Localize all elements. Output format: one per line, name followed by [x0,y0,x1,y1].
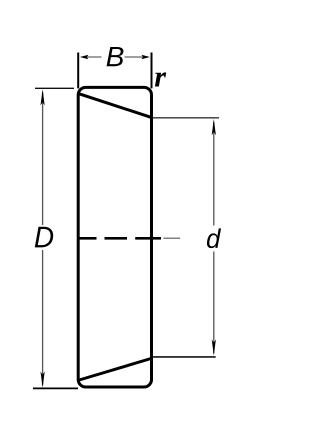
ring cross-section outline [78,87,151,387]
center line dash 1 [79,237,97,240]
B extension line left [77,53,79,89]
top taper diagonal [79,94,151,118]
D extension line top [35,87,74,89]
D arrow down [41,372,45,389]
bottom taper diagonal [79,359,151,381]
D dimension line upper [42,92,44,225]
D extension line bottom [33,387,78,389]
center line gray extension [164,237,181,239]
B extension line right [151,53,153,89]
B dimension line right segment [125,56,146,58]
d arrow up [212,119,216,136]
center line dash 2 [105,237,128,240]
d extension line bottom [153,356,216,358]
d extension line top [153,117,219,119]
D dimension line lower [42,250,44,385]
label d [207,228,221,248]
B arrow left [80,55,89,60]
B arrow right [141,55,150,60]
center line dash 3 [135,237,161,240]
D arrow up [41,89,45,106]
label B [107,47,124,66]
label D [35,227,53,248]
d arrow down [212,339,216,356]
d dimension line lower [213,252,215,354]
B dimension line left segment [85,56,102,58]
label r [155,72,166,86]
d dimension line upper [213,122,215,226]
